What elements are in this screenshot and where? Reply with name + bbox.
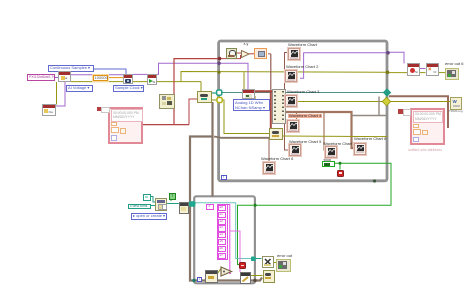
- wire olive enqueue error to right edge: [281, 135, 388, 138]
- producer loop condition stop sign: [337, 170, 344, 177]
- tunnel teal tdms consumer left edge: [189, 201, 196, 207]
- path constant c:\test.tdms: [128, 204, 151, 210]
- path constant icon: [143, 194, 151, 201]
- tunnel teal queue right edge: [383, 88, 391, 96]
- boolean T constant: [169, 193, 176, 200]
- wire crimson timestamp from cluster: [143, 124, 189, 126]
- wire olive obtain-queue error into loop to enqueue: [211, 99, 217, 101]
- tunnel yellow error ring left edge: [217, 98, 222, 103]
- wire gray stubs right of chart8: [352, 115, 386, 117]
- while loop (consumer bottom): [194, 196, 255, 283]
- wire task purple create-timing-start: [71, 74, 123, 76]
- tunnel green consumer right edge: [253, 204, 256, 207]
- iteration terminal i (producer): [221, 175, 227, 181]
- error out (consumer): [277, 254, 292, 258]
- iteration terminal i (consumer): [197, 277, 203, 283]
- tunnel yellow error diamond right edge: [382, 97, 390, 105]
- wire thick brown bus to chart8: [271, 112, 354, 148]
- wire teal queue into producer loop: [211, 92, 217, 94]
- junction dot loop bottom edge: [373, 179, 376, 182]
- Waveform Chart 4 selected: [288, 114, 322, 118]
- wire purple branch down to clear-task icon: [56, 82, 65, 106]
- TDMS Write (pencil): [240, 272, 252, 284]
- DAQmx clear-task icon lower left: [42, 104, 56, 116]
- Get Date/Time In Seconds: [226, 48, 237, 60]
- Enqueue Element: [269, 128, 283, 140]
- TDMS Set Properties: [179, 202, 189, 214]
- junction green stop wire: [339, 162, 342, 165]
- tunnel queue consumer bottom left: [192, 279, 195, 282]
- junction dot near clear-task icon: [53, 111, 56, 114]
- consumer loop condition stop sign: [239, 262, 246, 269]
- Waveform Chart: [288, 43, 317, 47]
- cluster constant 1 (waveform attributes): [108, 107, 143, 145]
- enum constant Continuous Samples: [48, 65, 94, 72]
- Waveform Chart 3: [287, 90, 319, 94]
- DAQmx physical channel PXI1Slot5/ai0-7: [27, 74, 55, 81]
- cluster2 corner element: [398, 109, 403, 114]
- wire error olive chain under icons: [71, 81, 201, 83]
- cluster constant 2: [410, 108, 445, 145]
- wire chart7 feed: [324, 112, 325, 150]
- while loop (producer main): [219, 41, 387, 181]
- stop button: [324, 158, 332, 162]
- tunnel olive error left edge: [217, 71, 220, 74]
- wire T to open: [170, 198, 172, 202]
- wire pale teal refnum inside consumer: [196, 203, 252, 259]
- DAQmx Stop Task: [407, 63, 420, 76]
- tunnel teal tdms consumer right edge: [251, 257, 256, 262]
- numeric constant 100000: [93, 75, 108, 81]
- Waveform Chart 6: [261, 157, 293, 161]
- DAQmx Create Virtual Channel: [58, 71, 71, 82]
- wire orange rate to timing: [107, 77, 124, 79]
- dropdown open or create: [131, 213, 167, 220]
- Waveform Chart 8: [354, 137, 386, 141]
- wires chart fan from index array: [285, 92, 286, 94]
- tunnel queue consumer right edge: [253, 279, 256, 282]
- wire olive branch to clear-task icon: [56, 82, 58, 105]
- cluster1 corner element: [97, 107, 101, 112]
- wire olive to stop/clear/errorout: [389, 72, 407, 74]
- convert to dynamic: [254, 48, 267, 59]
- Waveform Chart 7: [323, 142, 355, 146]
- wire thick brown out of right tunnel to logging: [389, 96, 448, 128]
- wire gray queue down to consumer loop: [211, 102, 213, 197]
- wire crimson inside to subtract: [221, 56, 243, 59]
- wire purple PXI to create: [53, 77, 58, 79]
- wire magenta channel names down: [227, 205, 231, 274]
- wire purple read task-out U to right tunnel: [300, 53, 388, 79]
- string array channel names: [217, 204, 228, 260]
- tunnel crimson timestamp left edge: [218, 57, 222, 61]
- subtract (x-y): [241, 50, 250, 58]
- tunnel purple task left edge: [217, 62, 221, 66]
- tunnel purple task right edge: [386, 51, 390, 55]
- dropdown AI Voltage: [66, 85, 93, 92]
- wire thick red waveform array read to index: [255, 90, 272, 92]
- wire gray queue around to release: [190, 137, 262, 281]
- wire chart4 feed: [296, 112, 298, 120]
- Waveform Chart 2: [286, 65, 318, 69]
- convert/cast triangle node: [220, 266, 233, 277]
- label x-y: [244, 42, 249, 46]
- wire elapsed to chart1: [268, 53, 271, 55]
- index array expanded: [272, 89, 286, 124]
- error out 6 indicator: [445, 62, 463, 66]
- array index 0 box: [206, 204, 214, 210]
- tunnel olive error right edge: [386, 71, 390, 75]
- wire blue sample-mode enum to timing: [93, 69, 127, 74]
- DAQmx Timing: [123, 74, 133, 84]
- Obtain Queue icon: [197, 91, 212, 103]
- wire teal tdms refnum chain: [150, 197, 155, 203]
- cluster2 label: [408, 149, 442, 153]
- TDMS Close: [262, 256, 274, 268]
- wire subtract to convert: [249, 53, 255, 55]
- wire purple outside right to DAQmx stop: [389, 52, 404, 63]
- DAQmx Read: [242, 89, 255, 99]
- wire purple start up to loop tunnel: [157, 63, 219, 74]
- DAQmx Configure Logging (TDMS): [450, 97, 462, 110]
- wire olive read error to right tunnel: [255, 96, 271, 102]
- TDMS Open: [155, 198, 167, 211]
- DAQmx Start Task: [147, 74, 157, 85]
- dropdown Sample Clock: [113, 85, 144, 92]
- read polymorphic selector: [233, 99, 270, 111]
- wire purple inside to read task-in: [220, 63, 248, 89]
- Dequeue Element: [205, 270, 218, 283]
- DAQmx Clear Task: [426, 63, 439, 76]
- Format Date/Time icon: [159, 94, 175, 109]
- Release Queue: [263, 270, 275, 283]
- wire green stop net: [255, 163, 391, 205]
- wire gray queue inside producer to enqueue: [214, 137, 269, 138]
- tunnel teal queue left edge: [217, 90, 222, 95]
- wire olive outside right to W icon: [389, 101, 450, 103]
- wire waveform branch down to enqueue: [270, 91, 272, 128]
- wires bottom right small: [250, 275, 263, 277]
- wire olive drop into DAQmx read: [243, 72, 245, 89]
- Waveform Chart 5: [289, 140, 321, 144]
